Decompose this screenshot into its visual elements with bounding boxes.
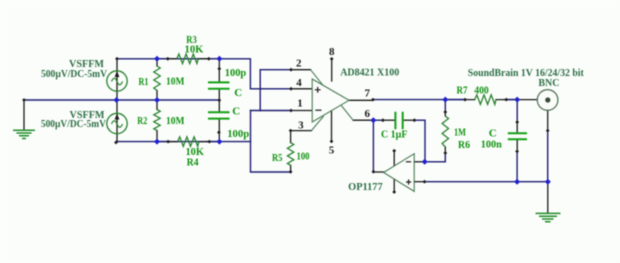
svg-text:10K: 10K xyxy=(185,44,204,56)
svg-text:2: 2 xyxy=(296,58,302,70)
svg-text:BNC: BNC xyxy=(538,77,559,89)
svg-text:SoundBrain 1V 16/24/32 bit: SoundBrain 1V 16/24/32 bit xyxy=(468,67,584,79)
svg-text:R2: R2 xyxy=(137,115,147,127)
svg-text:4: 4 xyxy=(296,77,302,89)
svg-text:3: 3 xyxy=(298,119,304,131)
svg-text:100p: 100p xyxy=(227,128,249,140)
svg-text:8: 8 xyxy=(329,46,335,58)
svg-text:C: C xyxy=(232,106,240,118)
svg-text:C: C xyxy=(234,87,242,99)
svg-text:R6: R6 xyxy=(458,139,470,151)
svg-text:500µV/DC-5mV: 500µV/DC-5mV xyxy=(41,68,107,80)
svg-text:R1: R1 xyxy=(139,76,149,88)
svg-text:1M: 1M xyxy=(454,126,466,138)
svg-text:7: 7 xyxy=(365,87,371,99)
svg-text:1: 1 xyxy=(297,98,303,110)
svg-text:100n: 100n xyxy=(481,139,502,151)
svg-text:R5: R5 xyxy=(272,152,283,164)
svg-text:6: 6 xyxy=(365,108,371,120)
svg-text:AD8421 X100: AD8421 X100 xyxy=(340,67,399,79)
svg-text:OP1177: OP1177 xyxy=(348,181,383,193)
svg-text:R4: R4 xyxy=(187,157,199,169)
svg-text:100p: 100p xyxy=(225,67,247,79)
svg-text:500µV/DC-5mV: 500µV/DC-5mV xyxy=(41,118,106,130)
svg-text:100: 100 xyxy=(297,150,310,162)
svg-text:C 1µF: C 1µF xyxy=(381,129,408,141)
svg-text:10M: 10M xyxy=(166,76,185,88)
svg-text:10M: 10M xyxy=(166,115,185,127)
svg-text:5: 5 xyxy=(329,144,335,156)
svg-text:R7: R7 xyxy=(457,85,468,97)
svg-text:C: C xyxy=(489,127,497,139)
svg-text:400: 400 xyxy=(474,85,489,97)
